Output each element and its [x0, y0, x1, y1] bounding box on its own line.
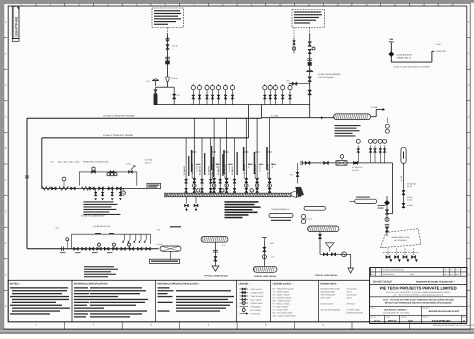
typical trap detail: steam trap	[342, 252, 347, 257]
gate valve CV9 on condensate line	[138, 247, 143, 250]
gate valve upper on drop D4	[245, 178, 248, 182]
handwheel circle on drop D6	[268, 184, 272, 188]
gate valve lower on drop D5	[256, 188, 259, 192]
handwheel circle on drop D1	[193, 184, 197, 188]
svg-text:- AS PER LATEST: - AS PER LATEST	[346, 308, 362, 311]
svg-text:0: 0	[372, 269, 373, 272]
wire: aux steam riser	[309, 34, 311, 42]
instrument offtake at x=264.8	[264, 90, 266, 105]
instrument leg from note box N2	[293, 28, 295, 39]
wire: branch line B1 from header H2	[42, 187, 147, 189]
gate valve upper on drop D5	[255, 178, 258, 182]
gate valve lower on short drop S3	[209, 188, 212, 192]
wire: steam distribution header H1	[27, 117, 262, 119]
svg-text:XX XX: XX XX	[407, 185, 413, 188]
NOTES body text	[10, 287, 68, 288]
wire: manifold drop D6	[269, 118, 271, 193]
manifold drain stub A	[186, 197, 188, 204]
flange on drop D2	[212, 151, 216, 153]
wire: header H2 left drop	[41, 138, 43, 189]
gate valve V6 below PCV-2	[308, 90, 312, 95]
bypass valve with gauge	[92, 167, 95, 170]
svg-text:CV - CONTROL VALVE: CV - CONTROL VALVE	[273, 297, 293, 300]
svg-text:X.X NB: X.X NB	[271, 114, 278, 117]
capped pipe nipple P3	[355, 199, 377, 203]
typical trap detail: run pipe	[320, 253, 351, 255]
condensate flash vessel FV-1	[160, 246, 181, 251]
drain pot diamond DP-1	[386, 196, 388, 200]
instrument offtake at x=232.5	[232, 90, 234, 105]
legend symbol STEAM TRAP	[240, 302, 249, 304]
wire: drop joining distribution header2 tail	[248, 105, 250, 138]
typical drain detail: flange pair 1	[213, 249, 218, 251]
bypass loop over branch B1	[78, 172, 80, 186]
wire: drop from instrument header to sparger line	[261, 105, 263, 118]
wire: manifold short drop S5	[234, 138, 236, 193]
gate valve CV10 on condensate line	[146, 247, 151, 250]
drain stub DS3	[111, 188, 113, 196]
wire: manifold drop D2	[213, 118, 215, 193]
gate valve AV2 on AVP-1 leg	[402, 203, 405, 207]
gate valve V1 on riser	[166, 45, 170, 50]
svg-text:X.X NB: X.X NB	[371, 106, 378, 109]
svg-text:XX/XX: XX/XX	[407, 196, 413, 199]
wire: link BL1 drop to blowdown chain	[387, 213, 393, 215]
spectacle blind on riser	[166, 61, 170, 64]
gate valve upper on short drop S5	[233, 179, 236, 183]
instrument offtake at x=207.0	[206, 90, 208, 105]
svg-text:DESIGN CODE: DESIGN CODE	[321, 302, 334, 305]
typical vent detail: open end	[262, 237, 267, 239]
label above nipple P3	[356, 197, 370, 198]
vent hooks with arrows on loop	[123, 234, 125, 242]
gate valve upper on drop D1	[193, 178, 196, 182]
svg-text:XX-XX: XX-XX	[157, 243, 163, 246]
instrument offtake at x=199.5	[199, 90, 201, 105]
svg-text:P.S.: P.S.	[287, 80, 291, 83]
gate valve V3 on aux riser	[308, 42, 312, 47]
svg-text:T.E.M. :- ITS XXXX ANY PART IN: T.E.M. :- ITS XXXX ANY PART IN ANY FORM …	[383, 299, 455, 302]
handwheel circle on drop D2	[212, 184, 216, 188]
scale date dwg-no row	[370, 314, 467, 316]
drain valve TD1	[387, 249, 389, 256]
bypass valve V2 on PRV bypass	[168, 86, 175, 88]
gate valve lower on drop D4	[245, 188, 248, 192]
flanged spool piece on BL1	[336, 161, 347, 166]
svg-text:X.XX NB: X.XX NB	[145, 159, 153, 162]
svg-text:C: C	[468, 116, 470, 119]
seal pot gauges SP-G	[301, 214, 305, 218]
svg-text:XX NB XX: XX NB XX	[199, 165, 202, 175]
svg-text:CBD - CONT. BLOW DOWN: CBD - CONT. BLOW DOWN	[273, 315, 296, 318]
svg-text:OUR GROUP COMPANY :-: OUR GROUP COMPANY :-	[384, 309, 408, 312]
dash-dot centerline marker	[58, 161, 80, 163]
gate valve lower on drop D3	[225, 188, 228, 192]
wire: condensate line from header H1 drop	[27, 248, 159, 250]
typical drain detail: valve	[214, 257, 217, 262]
gate valve upper on drop D3	[225, 178, 228, 182]
svg-text:MAXIMUM TEMP.: MAXIMUM TEMP.	[321, 290, 336, 293]
typical trap detail: valve 3	[331, 253, 335, 256]
gate valve lower on short drop S2	[201, 188, 204, 192]
wire: steam distribution header H2	[42, 137, 249, 139]
svg-text:STRAINER: STRAINER	[251, 305, 261, 308]
instrument tap circle on aux riser	[312, 47, 315, 50]
svg-text:STEAM LINE XX: STEAM LINE XX	[397, 56, 412, 59]
steam trap T1 on branch B1	[122, 188, 124, 191]
wire: blowdown line BL1	[302, 162, 393, 164]
svg-text:XX NB: XX NB	[407, 204, 413, 207]
sparger SP-1 (perforated pipe)	[334, 114, 371, 120]
svg-text:X.X m: X.X m	[172, 77, 178, 80]
flange + valve stack to tank	[385, 223, 390, 225]
svg-text:D: D	[468, 274, 470, 277]
svg-text:TYPICAL VENT DETAIL: TYPICAL VENT DETAIL	[254, 275, 278, 278]
wire: BL1 right drop	[392, 163, 394, 214]
svg-text:CHECK VALVE: CHECK VALVE	[251, 295, 265, 298]
svg-text:TG - TEMP. GAUGE: TG - TEMP. GAUGE	[273, 291, 290, 294]
nameplate box under FV-1	[150, 259, 180, 263]
svg-text:PR. GAUGE: PR. GAUGE	[251, 309, 262, 312]
wire: AVP-1 drain leg	[403, 164, 405, 209]
hose H3 on branch B1	[82, 187, 90, 191]
svg-text:FLOW DIR.: FLOW DIR.	[251, 312, 261, 315]
ejector E-1 branch	[297, 163, 299, 184]
blow down tank BDT (dashed outline)	[381, 229, 422, 248]
svg-text:D: D	[5, 274, 7, 277]
stub into nipple P3	[350, 200, 355, 202]
svg-text:D: D	[5, 84, 7, 87]
svg-text:1010-PTP-001: 1010-PTP-001	[432, 319, 451, 323]
angle valve on bypass right leg	[129, 170, 133, 173]
confidentiality note row	[370, 296, 467, 298]
flange tick on header H1 drop	[25, 175, 29, 177]
svg-text:SAFE LOC.: SAFE LOC.	[437, 50, 447, 53]
typical vent detail: header pipe	[253, 266, 277, 272]
svg-text:XXX NB XX STEAM DIST. HEADER: XXX NB XX STEAM DIST. HEADER	[103, 114, 135, 117]
gate valve V10 on branch B1	[99, 187, 104, 191]
wire: manifold drop D3	[226, 118, 228, 193]
svg-text:X.X NB: X.X NB	[400, 175, 403, 182]
wire: dashed leader from note box N2	[309, 28, 311, 34]
svg-text:XX NB XX STEAM DIST. HEADER: XX NB XX STEAM DIST. HEADER	[103, 134, 134, 137]
gate valve BV2 on BL1	[324, 161, 329, 165]
scan edge left	[0, 0, 3, 334]
svg-text:C: C	[468, 305, 470, 308]
control valve PCV-1 with diaphragm actuator	[155, 87, 157, 89]
gauge on instrument leg	[292, 47, 295, 50]
gate valve CV3 on condensate line	[89, 247, 94, 250]
gate valve V9 on branch B1	[90, 187, 95, 191]
typical trap detail: header pipe	[308, 226, 340, 232]
title block bottom edge	[370, 323, 467, 325]
svg-text:(BY OTHERS): (BY OTHERS)	[394, 239, 407, 242]
svg-text:TYPICAL DRAIN DETAIL: TYPICAL DRAIN DETAIL	[204, 275, 229, 278]
svg-text:XX XX: XX XX	[271, 162, 274, 168]
micro size labels under condensate valves	[60, 251, 66, 254]
gate valve BV1 on BL1	[305, 161, 310, 165]
scan edge top	[0, 0, 474, 3]
flow arrow at sparger outlet	[383, 108, 386, 111]
wire: manifold short drop S2	[201, 138, 203, 193]
svg-text:BLOW DOWN TANK: BLOW DOWN TANK	[392, 236, 410, 239]
gate valve CV1 on condensate line	[74, 247, 79, 250]
gate valve lower on drop D6	[268, 188, 271, 192]
handwheel circle on drop D5	[255, 184, 259, 188]
handwheel circles on band between drops	[197, 189, 200, 192]
svg-text:MAXIMUM PRESSURE: MAXIMUM PRESSURE	[321, 287, 341, 290]
gate valve CV4 on condensate line	[97, 247, 102, 250]
svg-text:XX XXX: XX XXX	[258, 165, 261, 172]
materials specification body rows	[74, 287, 88, 288]
svg-text:XX XX: XX XX	[248, 162, 251, 168]
typical drain detail: open arrow	[212, 266, 219, 271]
trap station list text	[83, 201, 113, 202]
gate valve CV8 on condensate line	[129, 247, 134, 250]
svg-text:P.S.: P.S.	[177, 94, 181, 97]
valve on instrument leg	[293, 41, 296, 45]
typical trap detail: valve 2	[323, 253, 327, 256]
flanged joint on riser	[165, 56, 170, 58]
instrument root valve on riser	[166, 38, 169, 41]
svg-text:TYPICAL TRAP DETAIL: TYPICAL TRAP DETAIL	[315, 274, 339, 277]
svg-text:SV - SAFETY VALVE: SV - SAFETY VALVE	[273, 294, 291, 297]
manifold reducer at right end	[291, 191, 297, 198]
manifold left end cap	[164, 192, 166, 197]
instrument offtake at x=275.4	[274, 90, 276, 105]
svg-text:PG - PRESSURE GAUGE: PG - PRESSURE GAUGE	[273, 288, 295, 291]
legend symbol BALL VALVE	[240, 299, 249, 301]
svg-text:XX NB XX SAFE LOCATION (BY OTH: XX NB XX SAFE LOCATION (BY OTHERS)	[394, 66, 430, 69]
gate valve AV1 on AVP-1 leg	[402, 191, 405, 195]
svg-text:FROM CPL/D VALVES (XX): FROM CPL/D VALVES (XX)	[83, 160, 108, 163]
table divider at x=236.5	[236, 280, 238, 322]
wire: manifold drop D4	[245, 118, 247, 193]
wire: FV-1 drain stub	[170, 251, 172, 259]
svg-text:C: C	[5, 305, 7, 308]
flange on drop D6	[268, 151, 272, 153]
wire: sparger feed line	[262, 117, 334, 119]
flange on drop D1	[192, 151, 196, 153]
svg-text:XX NB XXX: XX NB XXX	[352, 166, 363, 169]
dark label streaks beside long drops	[191, 150, 193, 172]
condensate collection manifold (jacketed pipe)	[166, 193, 291, 197]
instrument offtake at x=358.3 on BL1	[357, 146, 359, 163]
condensate trap list text	[84, 266, 114, 267]
svg-text:ST - STEAM TRAP: ST - STEAM TRAP	[273, 309, 289, 312]
vent return loop over condensate line	[71, 234, 73, 249]
svg-text:1010: 1010	[408, 320, 414, 323]
svg-text:MATERIALS SPECIFICATION :-: MATERIALS SPECIFICATION :-	[74, 283, 109, 286]
svg-text:IBD - INT. BLOW DOWN: IBD - INT. BLOW DOWN	[273, 312, 293, 315]
title block outer box	[370, 268, 467, 324]
svg-text:XX NB STEAM HEADER: XX NB STEAM HEADER	[318, 73, 341, 76]
svg-text:XX XXX: XX XXX	[352, 169, 360, 172]
flange on drop D3	[225, 151, 229, 153]
top margin zone ticks	[35, 3, 37, 6]
wire: manifold drop D5	[256, 118, 258, 193]
svg-text:XXX XX: XXX XX	[145, 161, 153, 164]
wire: instrument header line	[155, 104, 310, 106]
svg-text:D: D	[468, 84, 470, 87]
wire: aux riser segment	[309, 54, 311, 72]
instrument offtake at x=218.5	[218, 90, 220, 105]
wire: header H1 left drop	[26, 118, 28, 249]
svg-text:- XX KG/CM2: - XX KG/CM2	[346, 293, 357, 296]
flange ticks at condensate line start	[61, 247, 63, 251]
typical trap detail: drop to drain	[350, 254, 352, 268]
svg-text:XX XX: XX XX	[215, 162, 218, 168]
gate valve V11 on branch B1	[108, 187, 113, 191]
handwheel circle on drop D4	[245, 184, 249, 188]
svg-text:LEGEND (CONT.) :-: LEGEND (CONT.) :-	[273, 283, 294, 286]
drain pot diamond on vent stack	[388, 51, 394, 57]
hose H1 on branch B1	[43, 187, 51, 191]
wire: manifold short drop S3	[210, 138, 212, 193]
svg-text:OPR. TEMP.: OPR. TEMP.	[321, 296, 332, 299]
strainer S1 below PCV-1	[154, 95, 157, 105]
wire: sparger outlet	[371, 116, 377, 118]
typical vent detail: gauge circle	[262, 255, 266, 259]
table divider at x=270.5	[270, 280, 272, 322]
svg-text:REPRODUCTION IN PART OR FULL P: REPRODUCTION IN PART OR FULL PROHIBITED	[433, 324, 474, 327]
svg-text:- XXX C: - XXX C	[346, 290, 353, 293]
svg-text:C: C	[5, 116, 7, 119]
svg-text:LEGEND :-: LEGEND :-	[239, 283, 251, 286]
gate valve CV7 on condensate line	[121, 247, 126, 250]
control valve PCV-2 with actuator	[307, 71, 313, 73]
legend symbol CHECK VALVE	[240, 295, 249, 297]
gate valve upper on short drop S2	[201, 179, 204, 183]
flanged joint on aux riser	[307, 58, 312, 60]
svg-text:- DIMENSION SHEET: - DIMENSION SHEET	[346, 311, 365, 314]
manifold outlet spool	[297, 192, 301, 197]
svg-text:NOTES :-: NOTES :-	[10, 283, 21, 286]
label under nipple P2	[271, 220, 291, 221]
typical trap detail: drop leg	[319, 232, 321, 255]
gate valve V12 on branch B1	[117, 187, 122, 191]
wire: dashed leader from note box N1	[167, 28, 169, 34]
svg-text:MATERIALS SPECIFICATION (CONT.: MATERIALS SPECIFICATION (CONT.) :-	[158, 283, 201, 286]
gate valve CV5 on condensate line	[104, 247, 109, 250]
typical vent detail: riser	[263, 241, 265, 266]
instrument offtake at x=380.3 on BL1	[379, 146, 381, 163]
bypass branch with valve V5	[289, 83, 310, 85]
right margin zone ticks	[467, 37, 470, 39]
svg-text:- XX NB (R) XXL XX -: - XX NB (R) XXL XX -	[92, 225, 112, 228]
company name box	[370, 284, 467, 286]
svg-text:ISSUED FOR APPROVAL: ISSUED FOR APPROVAL	[383, 269, 404, 272]
drain valve TD4	[413, 249, 415, 256]
reducer on riser	[166, 77, 170, 82]
gate valve upper on drop D6	[268, 178, 271, 182]
svg-text:X.X m XX kg/cm2: X.X m XX kg/cm2	[318, 76, 335, 79]
handwheel circle on drop D3	[225, 184, 229, 188]
spectacle blind on aux riser	[308, 62, 311, 65]
gate valve lower on short drop S5	[233, 188, 236, 192]
svg-text:X.X m: X.X m	[172, 45, 178, 48]
drain stub DS1	[95, 188, 97, 196]
micro labels left of DP-1	[378, 204, 386, 207]
instrument offtake at x=375.0 on BL1	[374, 146, 376, 163]
note box N2 (dashed, aux boiler)	[292, 10, 325, 28]
svg-text:TEL : +91 XX XXXX XXXX EMAIL: TEL : +91 XX XXXX XXXX EMAIL : pietechpr…	[393, 293, 443, 296]
legend symbol GATE VALVE	[240, 288, 249, 290]
svg-text:TT - TEMP. TRANS.: TT - TEMP. TRANS.	[273, 306, 290, 309]
table divider at x=318.5	[318, 280, 320, 322]
svg-text:STEAM TRAP: STEAM TRAP	[251, 302, 264, 305]
svg-text:BOILER DE-SCALING PLANT: BOILER DE-SCALING PLANT	[429, 310, 460, 313]
gauge pair on vent riser base	[386, 118, 388, 123]
gate valve CV2 on condensate line	[82, 247, 87, 250]
marks on loop top line	[95, 233, 101, 234]
capped pipe nipple P2	[269, 213, 293, 217]
legend symbol PR. GAUGE	[242, 309, 245, 312]
instrument offtake at x=370.5 on BL1	[370, 146, 372, 163]
svg-text:DESIGN DATA :-: DESIGN DATA :-	[321, 283, 339, 286]
gate valve CV6 on condensate line	[113, 247, 118, 250]
wire: riser to PRV inlet elbow	[167, 82, 169, 88]
sparger data list	[335, 125, 361, 126]
gate valve upper on drop D2	[212, 178, 215, 182]
drain stub DS2	[102, 188, 104, 196]
instrument offtake at x=282.7	[282, 90, 284, 105]
svg-text:XX XXX: XX XXX	[228, 165, 231, 172]
gate valve V8 on branch B1	[71, 187, 75, 190]
gate valve upper on short drop S4	[219, 179, 222, 183]
flow arrow on sparger feed	[321, 116, 323, 119]
typical trap detail: open arrow	[348, 268, 353, 273]
instrument offtake at x=384.6 on BL1	[384, 146, 386, 163]
exhaust head bars on vent stack	[389, 41, 394, 43]
label XX NB above FV-1	[170, 226, 181, 227]
svg-text:XX NB XX: XX NB XX	[231, 165, 234, 175]
typical drain detail: header pipe	[201, 236, 228, 242]
gauge trio on bypass	[107, 173, 110, 176]
legend symbol STRAINER	[240, 306, 249, 308]
svg-text:TO BLOW DOWN XX: TO BLOW DOWN XX	[271, 208, 290, 211]
typical drain detail: drop leg	[214, 242, 216, 266]
globe valve BV3 on BL1	[353, 161, 357, 164]
svg-text:N.T.S.: N.T.S.	[374, 320, 380, 323]
svg-text:GATE VALVE: GATE VALVE	[251, 288, 263, 291]
dark label streaks beside short drops	[188, 156, 189, 176]
vertical drawing number box top-left	[12, 6, 19, 38]
trap circle under DV1	[385, 218, 389, 222]
gate valve V7 on branch B1	[52, 187, 57, 190]
end flanges on BL1	[300, 161, 302, 165]
instrument offtake at x=193.3	[192, 90, 194, 105]
legend symbol FLOW DIR.	[240, 313, 247, 315]
svg-text:WITHOUT OUR PERMISSION AND MUS: WITHOUT OUR PERMISSION AND MUST BE RETUR…	[385, 302, 453, 305]
svg-text:MAR-19: MAR-19	[388, 320, 397, 323]
drain valve TD3	[404, 249, 406, 256]
bottom tables outer box	[8, 280, 369, 322]
tank drain manifold dashes	[383, 252, 418, 254]
revision table	[370, 268, 466, 277]
gauge stem left of loop	[66, 241, 68, 249]
gate valve lower on drop D2	[213, 188, 216, 192]
svg-text:- XX KG/CM2: - XX KG/CM2	[346, 287, 357, 290]
svg-text:- XX NB XX CONDENSATE -: - XX NB XX CONDENSATE -	[80, 215, 106, 218]
gate valve upper on short drop S1	[185, 179, 188, 183]
bottom margin zone ticks	[64, 322, 66, 330]
svg-text:BALL VALVE: BALL VALVE	[251, 298, 263, 301]
micro labels above drop valves	[196, 163, 201, 166]
instrument offtake at x=225.5	[225, 90, 227, 105]
group company / project row	[370, 305, 467, 307]
svg-text:XX XXX: XX XXX	[196, 165, 199, 172]
